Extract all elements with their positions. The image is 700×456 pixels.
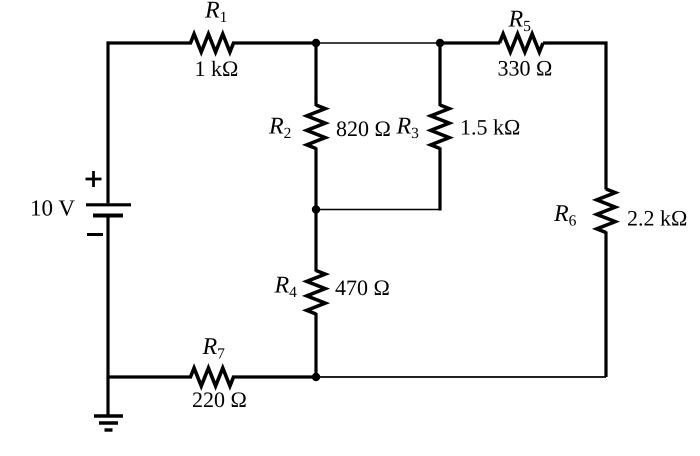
wire node B down to R3 bbox=[438, 43, 441, 106]
svg-text:330 Ω: 330 Ω bbox=[498, 55, 553, 80]
resistor R5 bbox=[500, 34, 544, 52]
svg-text:R2: R2 bbox=[268, 114, 291, 143]
svg-text:R3: R3 bbox=[396, 114, 420, 143]
resistor R1 bbox=[191, 34, 234, 52]
svg-text:R6: R6 bbox=[553, 201, 577, 230]
resistor R7 bbox=[191, 368, 234, 386]
wire R7 to node D bbox=[232, 375, 317, 378]
wire R2 down to node C bbox=[314, 148, 317, 211]
resistor R3 bbox=[431, 105, 449, 149]
svg-text:R7: R7 bbox=[202, 334, 226, 363]
svg-text:2.2 kΩ: 2.2 kΩ bbox=[627, 206, 687, 231]
wire left vertical (battery + terminal up to top-left corner) bbox=[108, 43, 192, 203]
ground bbox=[94, 416, 123, 430]
resistor R4 bbox=[307, 271, 325, 315]
wire node C down to R4 bbox=[314, 210, 317, 272]
wire battery - terminal down to bottom-left corner bbox=[108, 217, 192, 377]
svg-text:470 Ω: 470 Ω bbox=[335, 275, 390, 300]
svg-text:1.5 kΩ: 1.5 kΩ bbox=[460, 115, 520, 140]
node A junction dot bbox=[312, 39, 320, 47]
node D junction dot bbox=[312, 373, 320, 381]
wire ground stub bbox=[106, 377, 109, 416]
wire R5 to top-right corner and down to R6 bbox=[543, 43, 606, 190]
battery V1 short plate (-) bbox=[93, 214, 123, 218]
wire R3 down to middle rung bbox=[438, 148, 441, 211]
wire middle rung horizontal (thin, node C to R3 branch) bbox=[316, 209, 441, 211]
wire R4 down to node D bbox=[314, 313, 317, 377]
node C junction dot bbox=[312, 205, 320, 213]
svg-text:R5: R5 bbox=[508, 6, 532, 35]
battery minus sign bbox=[87, 233, 103, 236]
svg-text:220 Ω: 220 Ω bbox=[192, 387, 247, 412]
svg-text:820 Ω: 820 Ω bbox=[336, 116, 391, 141]
node B junction dot bbox=[436, 39, 444, 47]
resistor R6 bbox=[597, 189, 615, 233]
svg-text:10 V: 10 V bbox=[30, 196, 75, 221]
battery V1 long plate (+) bbox=[86, 203, 131, 206]
wire bottom right (thin, node D to bottom-right corner) bbox=[316, 376, 606, 378]
svg-text:R4: R4 bbox=[274, 273, 298, 302]
wire node B to R5 bbox=[439, 41, 500, 44]
wire R6 down to bottom-right corner bbox=[604, 232, 607, 378]
svg-text:R1: R1 bbox=[204, 0, 227, 26]
battery plus sign bbox=[86, 171, 102, 187]
wire node A to node B (thin) bbox=[316, 42, 440, 44]
wire R1 to node A bbox=[232, 41, 317, 44]
svg-text:1 kΩ: 1 kΩ bbox=[195, 56, 239, 81]
wire node A down to R2 bbox=[314, 43, 317, 106]
resistor R2 bbox=[307, 105, 325, 149]
